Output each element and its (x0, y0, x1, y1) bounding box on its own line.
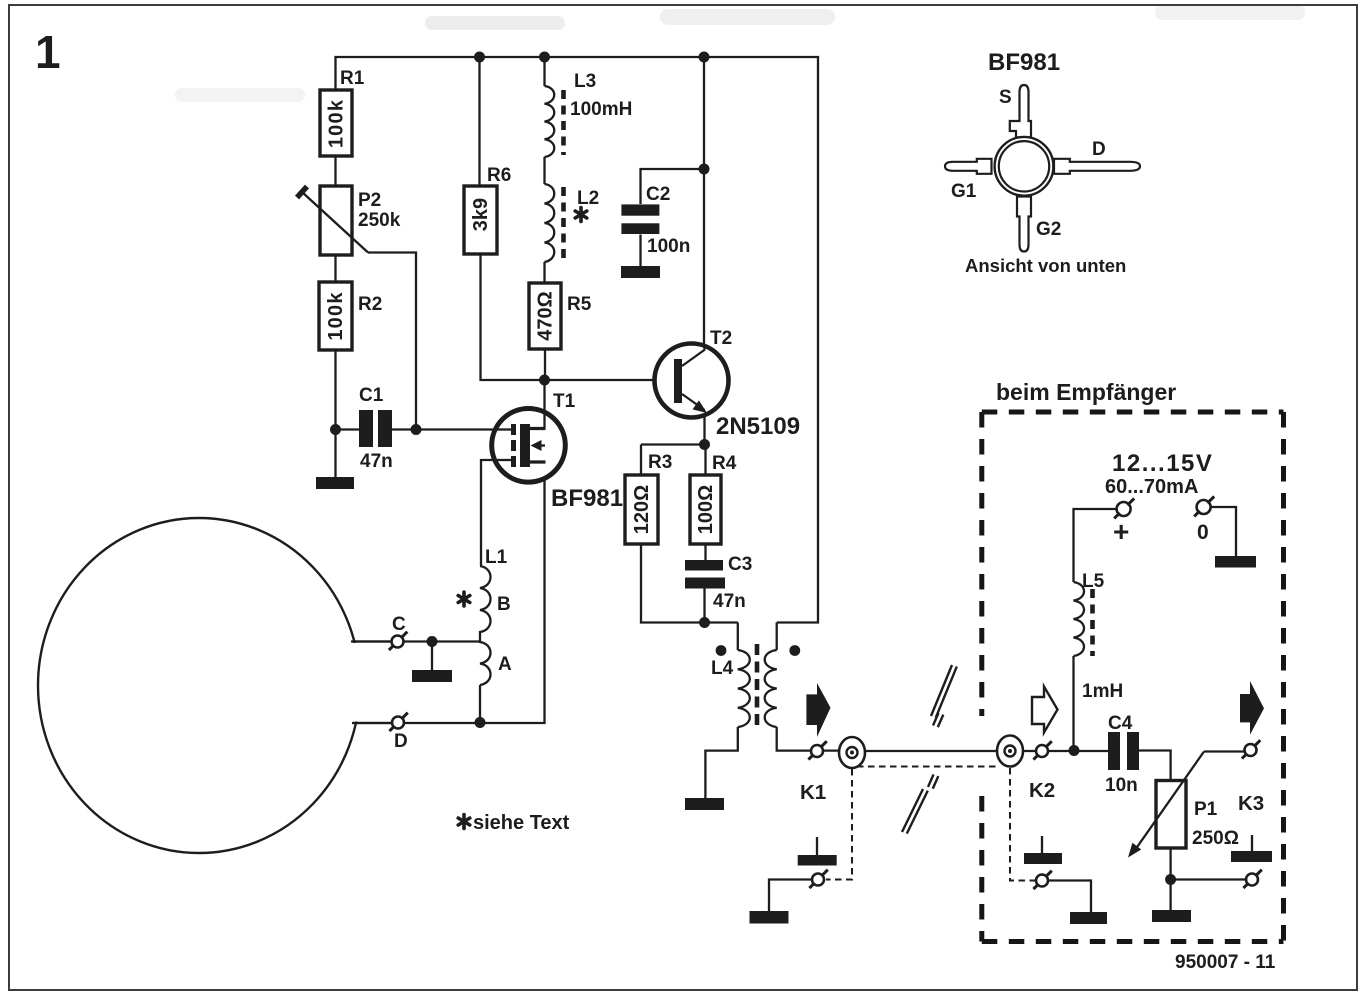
svg-text:P1: P1 (1194, 799, 1218, 820)
svg-text:Ansicht von unten: Ansicht von unten (965, 255, 1126, 276)
svg-text:K2: K2 (1029, 779, 1055, 802)
svg-text:100n: 100n (647, 236, 690, 257)
svg-text:100mH: 100mH (570, 99, 632, 120)
svg-text:100k: 100k (326, 99, 348, 148)
svg-text:10n: 10n (1105, 775, 1138, 796)
svg-text:12...15V: 12...15V (1112, 450, 1213, 477)
svg-text:60...70mA: 60...70mA (1105, 476, 1198, 498)
svg-text:+: + (1113, 516, 1129, 547)
svg-text:T2: T2 (710, 328, 732, 349)
svg-text:C2: C2 (646, 184, 670, 205)
svg-text:D: D (394, 731, 408, 752)
svg-text:120Ω: 120Ω (631, 485, 653, 534)
svg-text:G2: G2 (1036, 219, 1061, 240)
svg-text:100Ω: 100Ω (695, 485, 717, 534)
svg-text:L5: L5 (1082, 571, 1105, 592)
svg-text:siehe Text: siehe Text (473, 812, 570, 834)
svg-text:T1: T1 (553, 391, 576, 412)
svg-text:1: 1 (35, 26, 61, 78)
svg-text:BF981: BF981 (551, 485, 623, 512)
svg-text:47n: 47n (360, 451, 393, 472)
svg-text:A: A (498, 654, 512, 675)
svg-text:BF981: BF981 (988, 49, 1060, 76)
svg-text:C4: C4 (1108, 713, 1133, 734)
svg-text:100k: 100k (325, 291, 347, 340)
svg-text:1mH: 1mH (1082, 681, 1123, 702)
svg-text:950007 - 11: 950007 - 11 (1175, 952, 1276, 973)
svg-text:S: S (999, 87, 1012, 108)
svg-text:C: C (392, 614, 406, 635)
svg-text:C1: C1 (359, 385, 384, 406)
svg-text:250k: 250k (358, 210, 401, 231)
svg-text:0: 0 (1197, 521, 1209, 544)
svg-text:R4: R4 (712, 453, 737, 474)
svg-text:C3: C3 (728, 554, 752, 575)
svg-text:L4: L4 (711, 658, 734, 679)
svg-text:L1: L1 (485, 547, 508, 568)
svg-text:D: D (1092, 139, 1106, 160)
svg-text:R6: R6 (487, 165, 511, 186)
svg-text:K3: K3 (1238, 792, 1264, 815)
svg-text:470Ω: 470Ω (535, 291, 557, 340)
svg-text:R3: R3 (648, 452, 672, 473)
svg-text:beim Empfänger: beim Empfänger (996, 379, 1176, 405)
svg-text:3k9: 3k9 (470, 198, 492, 231)
svg-text:B: B (497, 594, 511, 615)
svg-text:47n: 47n (713, 591, 746, 612)
svg-text:G1: G1 (951, 181, 977, 202)
svg-text:R5: R5 (567, 294, 592, 315)
svg-text:L3: L3 (574, 71, 596, 92)
svg-text:P2: P2 (358, 190, 381, 211)
svg-text:K1: K1 (800, 781, 826, 804)
svg-text:R2: R2 (358, 294, 382, 315)
svg-text:2N5109: 2N5109 (716, 413, 800, 440)
svg-text:250Ω: 250Ω (1192, 828, 1239, 849)
svg-text:R1: R1 (340, 68, 365, 89)
